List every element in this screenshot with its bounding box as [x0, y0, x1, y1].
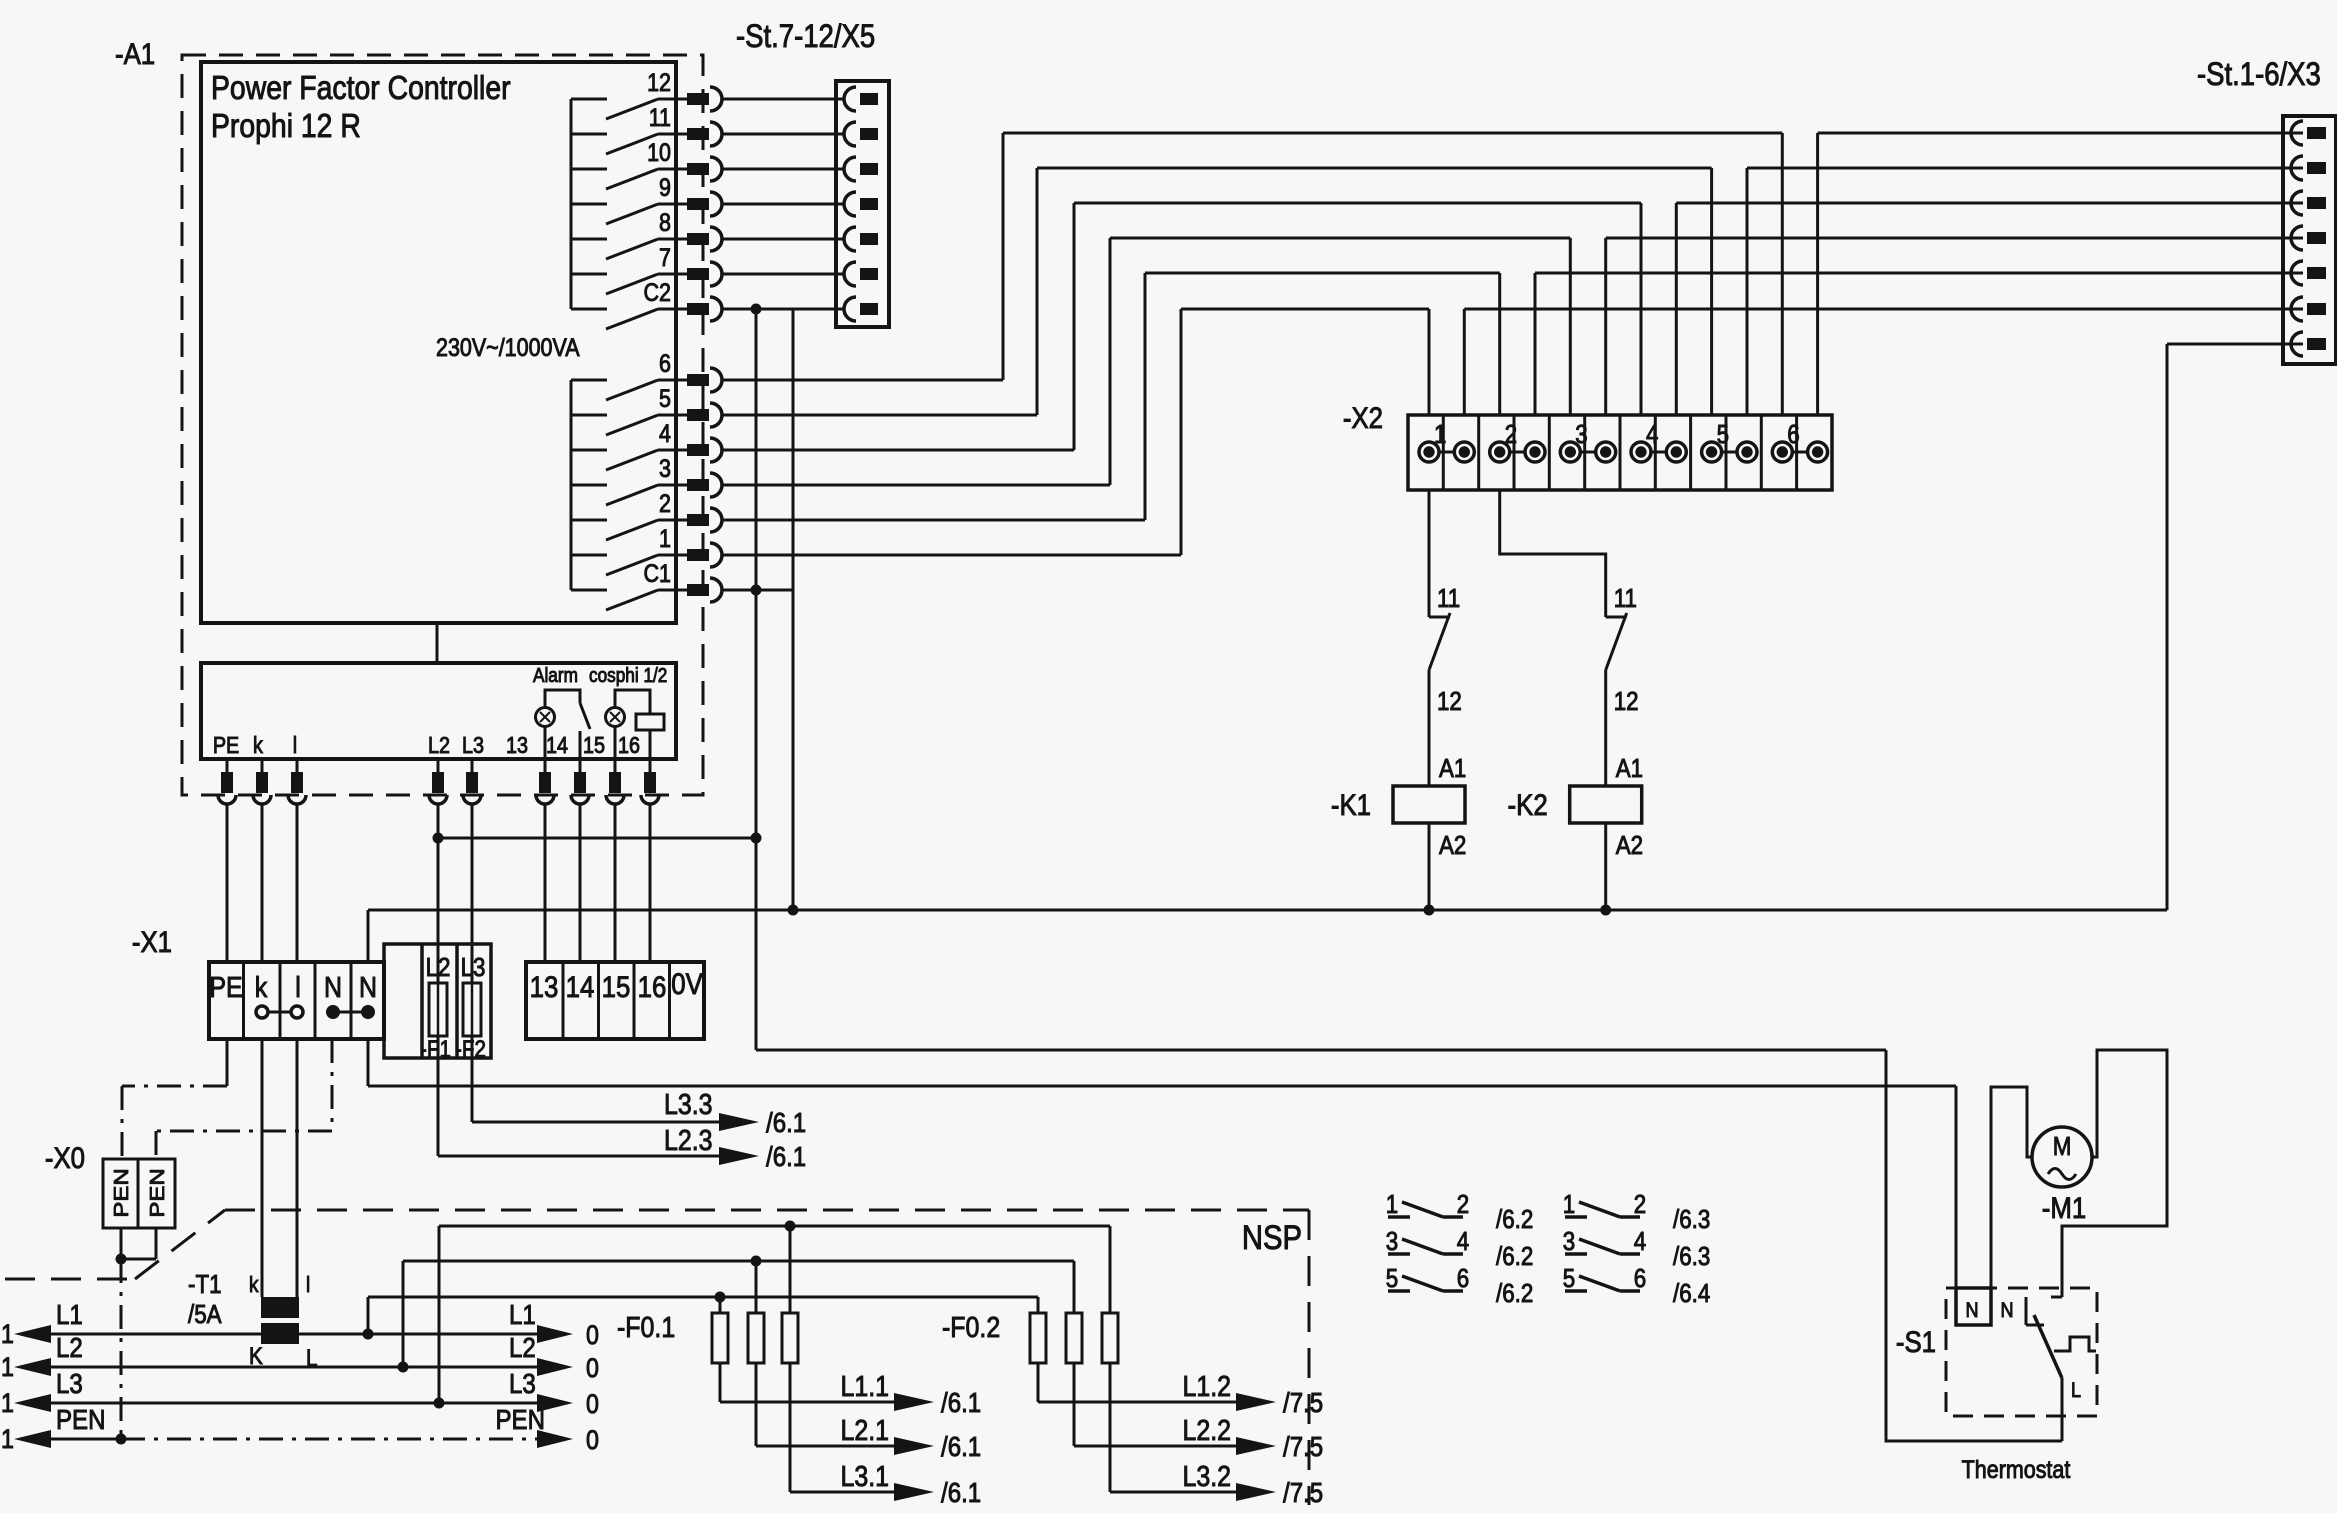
wire supply vertical x=756 [755, 309, 758, 1050]
svg-text:C2: C2 [644, 278, 671, 306]
terminal N box of S1 [1956, 1288, 1991, 1325]
terminal pair 6 of X2 [1772, 420, 1827, 462]
relay contact 11 of A1 with pin [571, 103, 722, 154]
svg-text:L: L [2071, 1379, 2081, 1403]
label -T1 /5A [188, 1270, 222, 1329]
svg-text:cosphi 1/2: cosphi 1/2 [589, 664, 667, 687]
socket 6 of X3 [2291, 297, 2326, 321]
wire down into X2 terminal x=1711.6 [1710, 168, 1713, 415]
pin 15 of A1 bottom [606, 759, 624, 804]
node K1 bus junction [1424, 905, 1435, 916]
pin L3 of A1 bottom [463, 759, 481, 804]
svg-text:PEN: PEN [146, 1168, 169, 1217]
svg-text:L3: L3 [56, 1367, 83, 1399]
switch blade S1 thermostat [2034, 1315, 2062, 1378]
svg-text:/7.5: /7.5 [1283, 1386, 1323, 1418]
wire N terminal to S1 bus [368, 1039, 1956, 1086]
labels X1 PE k l N N [209, 971, 377, 1003]
socket 4 of X5 (row 9) [844, 192, 878, 216]
wire X2 right terminal up x=1535.0 [1534, 273, 1537, 415]
socket 2 of X5 (row 11) [844, 122, 878, 146]
label L3.3 [664, 1088, 713, 1120]
contact 11-12 of K2 [1606, 613, 1627, 670]
label 13 14 15 16 terminals [506, 733, 640, 759]
boundary NSP dashed [5, 1210, 1309, 1505]
terminal strip X1 left body [209, 962, 384, 1039]
svg-text:/6.1: /6.1 [766, 1140, 806, 1172]
svg-text:3: 3 [1563, 1227, 1575, 1256]
label -M1 [2042, 1191, 2086, 1224]
svg-text:L3: L3 [509, 1367, 536, 1399]
svg-text:/5A: /5A [188, 1300, 222, 1329]
svg-text:/6.2: /6.2 [1496, 1242, 1533, 1271]
svg-text:N: N [1965, 1299, 1978, 1323]
svg-text:12: 12 [1437, 687, 1462, 716]
wire A1 pin 10 to X5 [722, 168, 844, 171]
wire X0 to PEN rail dash-dot [120, 1259, 123, 1439]
svg-text:L2.3: L2.3 [664, 1124, 713, 1156]
socket 3 of X5 (row 10) [844, 157, 878, 181]
arrow L2.3 /6.1 [719, 1140, 806, 1172]
label L3 fuse [461, 953, 486, 982]
svg-text:9: 9 [659, 173, 671, 201]
svg-text:2: 2 [1457, 1190, 1469, 1219]
pin l of A1 bottom [288, 759, 306, 804]
svg-text:K: K [249, 1343, 263, 1370]
svg-text:6: 6 [1457, 1264, 1469, 1293]
wire A1 pin PE to X1 [226, 804, 229, 962]
wire output L3.1 [790, 1491, 898, 1494]
coil K2 [1570, 786, 1642, 823]
svg-text:/6.2: /6.2 [1496, 1279, 1533, 1308]
wire relay output y=555 to riser [722, 554, 1181, 557]
fuse F2 [463, 944, 481, 1058]
wire M1 left to S1 N terminal [1991, 1087, 2032, 1288]
label Power Factor Controller [211, 69, 511, 145]
svg-text:Alarm: Alarm [533, 664, 578, 687]
fuse holder box F1 F2 [384, 944, 491, 1058]
svg-text:M: M [2053, 1132, 2072, 1161]
svg-text:14: 14 [566, 970, 595, 1003]
wire output L3.2 [1110, 1491, 1240, 1494]
svg-text:N: N [324, 971, 342, 1003]
wire down into X2 terminal x=1499.7 [1498, 273, 1501, 415]
wire A1 pin C1 to node [722, 589, 793, 592]
terminal pair 3 of X2 [1560, 420, 1615, 462]
svg-text:0V: 0V [671, 967, 703, 1000]
svg-text:5: 5 [1717, 420, 1729, 449]
transformer T1 secondary bar [261, 1297, 299, 1318]
svg-text:-T1: -T1 [188, 1270, 222, 1299]
wire thermostat return [1886, 1050, 2062, 1441]
svg-text:-F2: -F2 [455, 1036, 486, 1063]
socket 1 of X5 (row 12) [844, 87, 878, 111]
socket 4 of X3 [2291, 226, 2326, 250]
label -F2 [455, 1036, 486, 1063]
wire k to T1 [261, 1039, 264, 1297]
wire lamp H1 to pin 13 [544, 727, 547, 759]
wire output L1.1 [720, 1401, 898, 1404]
svg-text:4: 4 [1634, 1227, 1646, 1256]
relay common bus bracket upper [570, 99, 573, 309]
relay contact 4 of A1 with pin [571, 419, 722, 470]
svg-text:2: 2 [1505, 420, 1517, 449]
label Thermostat [1962, 1455, 2071, 1483]
enclosure A1 dashed border [182, 55, 703, 795]
svg-text:N: N [2000, 1299, 2013, 1323]
svg-text:L1: L1 [56, 1298, 83, 1330]
wire riser up x=1003 [1002, 133, 1005, 380]
fuse F1 [429, 944, 447, 1058]
relay contact 10 of A1 with pin [571, 138, 722, 189]
node L2 tap [433, 833, 444, 844]
wire A1 pin k to X1 [261, 804, 264, 962]
label PE k l terminals [213, 733, 297, 759]
terminal mark S1 L-in [2051, 1296, 2062, 1299]
svg-text:k: k [249, 1273, 259, 1298]
svg-text:/7.5: /7.5 [1283, 1476, 1323, 1508]
wire A1 pin 13 to X1 [544, 804, 547, 962]
label K1 contact 11 [1437, 584, 1460, 613]
fuse F0.1 L2.1 [748, 1261, 764, 1446]
wire A1 pin l to X1 [296, 804, 299, 962]
coil K1 [1393, 786, 1465, 823]
wire riser up x=1110 [1109, 238, 1112, 485]
svg-text:/6.1: /6.1 [941, 1430, 981, 1462]
svg-text:13: 13 [530, 970, 559, 1003]
svg-text:6: 6 [1634, 1264, 1646, 1293]
node C2 junction [751, 304, 762, 315]
label K1 contact 12 [1437, 687, 1462, 716]
arrow L1.1 /6.1 [894, 1386, 981, 1418]
wire level y=203 to X3 socket 3 [1676, 202, 2303, 205]
wire A1 pin 9 to X5 [722, 203, 844, 206]
label K2 coil A2 [1616, 831, 1643, 860]
svg-text:0: 0 [586, 1353, 599, 1383]
arrow L3.2 /7.5 [1236, 1476, 1323, 1508]
svg-text:230V~/1000VA: 230V~/1000VA [436, 333, 580, 361]
wire A1 pin 7 to X5 [722, 273, 844, 276]
wire level y=168 to X2 left terminal [1037, 167, 1712, 170]
relay common bus bracket lower [570, 380, 573, 590]
wire output L1.2 [1038, 1401, 1240, 1404]
terminal strip X2 body [1408, 415, 1832, 490]
connector X3 body [2283, 116, 2336, 364]
svg-text:-M1: -M1 [2042, 1191, 2086, 1224]
svg-text:PE: PE [213, 733, 239, 759]
svg-text:7: 7 [659, 243, 671, 271]
label -X2 [1343, 401, 1383, 434]
svg-text:Thermostat: Thermostat [1962, 1455, 2071, 1483]
svg-text:1: 1 [1, 1424, 14, 1454]
terminal pair 2 of X2 [1490, 420, 1545, 462]
label S1 N first [1965, 1299, 1978, 1323]
svg-text:16: 16 [618, 733, 640, 759]
wire X2 right terminal up x=1605.7 [1604, 238, 1607, 415]
wire lamp H2 top bracket [615, 690, 650, 714]
svg-text:PE: PE [209, 971, 242, 1003]
wire relay output y=450 to riser [722, 449, 1074, 452]
label L1.2 [1182, 1370, 1231, 1402]
label L3.1 [840, 1460, 889, 1492]
wire X2 right terminal up x=1747.0 [1746, 168, 1749, 415]
node C1 junction [751, 585, 762, 596]
svg-text:5: 5 [1563, 1264, 1575, 1293]
svg-text:4: 4 [659, 419, 671, 447]
relay contact 1 of A1 with pin [571, 524, 722, 575]
svg-text:15: 15 [602, 970, 631, 1003]
svg-text:l: l [295, 971, 301, 1003]
wire F2 output L3.3 [472, 1058, 719, 1122]
wire X3 socket7 drop x=2167 [2166, 344, 2169, 910]
wire coil bus to X1 terminal N [367, 910, 370, 962]
wire alarm switch to pin 14 [579, 731, 582, 759]
svg-text:A2: A2 [1616, 831, 1643, 860]
wire relay output y=415 to riser [722, 414, 1037, 417]
thermostat S1 dashed box [1946, 1288, 2097, 1416]
wire lamp H1 top bracket [545, 690, 580, 707]
node feed L1.1 [715, 1292, 726, 1303]
label L2.3 [664, 1124, 713, 1156]
wire l to T1 [296, 1039, 299, 1297]
svg-text:11: 11 [649, 103, 671, 131]
svg-text:-St.7-12/X5: -St.7-12/X5 [736, 19, 875, 54]
wire A1 pin C2 to X5 socket 7 [722, 308, 844, 311]
pin L2 of A1 bottom [429, 759, 447, 804]
svg-text:L3: L3 [462, 733, 484, 759]
label L3.2 [1182, 1460, 1231, 1492]
svg-text:-F0.2: -F0.2 [942, 1311, 1000, 1343]
wire C2 branch down x=793 [792, 309, 795, 910]
svg-text:-A1: -A1 [115, 37, 155, 70]
svg-text:5: 5 [1386, 1264, 1398, 1293]
relay contact 12 of A1 with pin [571, 68, 722, 119]
wire A1 main box to terminal section [436, 623, 439, 663]
node L2 rail tap [398, 1362, 409, 1373]
wire A1 pin 12 to X5 [722, 98, 844, 101]
terminal mark S1 N2 [2026, 1297, 2044, 1325]
link k-l measurement [256, 1006, 303, 1018]
connector X5 body [836, 81, 889, 327]
wire relay output y=520 to riser [722, 519, 1145, 522]
label L1.1 [840, 1370, 889, 1402]
svg-text:L3.1: L3.1 [840, 1460, 889, 1492]
svg-text:-K1: -K1 [1331, 788, 1371, 821]
label K2 coil A1 [1616, 754, 1643, 783]
rail L2 [1, 1331, 599, 1383]
contact 11-12 of K1 [1429, 613, 1450, 670]
socket 6 of X5 (row 7) [844, 262, 878, 286]
svg-text:5: 5 [659, 384, 671, 412]
arrow L3.1 /6.1 [894, 1476, 981, 1508]
svg-text:-St.1-6/X3: -St.1-6/X3 [2197, 57, 2321, 92]
relay contact C1 of A1 with pin [571, 559, 722, 610]
node K2 bus junction [1600, 905, 1611, 916]
wire K2 coil to bus [1604, 823, 1607, 910]
svg-text:A1: A1 [1439, 754, 1466, 783]
wire N bus into S1 [1955, 1086, 1958, 1325]
terminal pair 1 of X2 [1419, 420, 1474, 462]
rail L1 [1, 1298, 599, 1350]
node feed L2.1 [751, 1256, 762, 1267]
svg-text:/7.5: /7.5 [1283, 1430, 1323, 1462]
relay contact 3 of A1 with pin [571, 454, 722, 505]
pin k of A1 bottom [253, 759, 271, 804]
label S1 L [2071, 1379, 2081, 1403]
svg-text:L3.2: L3.2 [1182, 1460, 1231, 1492]
svg-text:A1: A1 [1616, 754, 1643, 783]
label -X1 [132, 925, 172, 958]
svg-text:4: 4 [1457, 1227, 1469, 1256]
wire A1 pin L2 to X1 [437, 804, 440, 944]
svg-text:10: 10 [647, 138, 671, 166]
label T1 K L [249, 1343, 317, 1372]
relay contact 5 of A1 with pin [571, 384, 722, 435]
node X0 PEN junction [116, 1254, 127, 1265]
relay contact 2 of A1 with pin [571, 489, 722, 540]
arrow L3.3 /6.1 [719, 1106, 806, 1138]
svg-text:C1: C1 [644, 559, 671, 587]
svg-text:A2: A2 [1439, 831, 1466, 860]
svg-text:1: 1 [1386, 1190, 1398, 1219]
switch alarm contact [580, 703, 590, 729]
wire X2 right terminal up x=1676.3 [1675, 203, 1678, 415]
terminal X0 PEN left [103, 1159, 138, 1228]
wire PE dash-dot to X0 [122, 1086, 227, 1159]
wire L2 tap to supply vertical [438, 837, 756, 840]
svg-text:1: 1 [1434, 420, 1446, 449]
wire X2-2 to K2 contact [1500, 490, 1606, 617]
contact ref 3-4 /6.2 [1386, 1227, 1534, 1271]
wire riser up x=1037 [1036, 168, 1039, 415]
socket 7 of X3 [2291, 332, 2326, 356]
contact ref 1-2 /6.3 [1563, 1190, 1711, 1234]
wire K1 contact to coil [1428, 670, 1431, 786]
label L2.1 [840, 1414, 889, 1446]
svg-text:L2.1: L2.1 [840, 1414, 889, 1446]
link N-N bridge [326, 1005, 375, 1019]
pin 13 of A1 bottom [536, 759, 554, 804]
label L2.2 [1182, 1414, 1231, 1446]
wire X0 PEN link [121, 1228, 156, 1259]
wire X0 left PEN down [120, 1228, 123, 1259]
relay contact 8 of A1 with pin [571, 208, 722, 259]
svg-text:/6.3: /6.3 [1673, 1242, 1710, 1271]
wire level y=273 to X3 socket 5 [1535, 272, 2303, 275]
svg-text:-F0.1: -F0.1 [617, 1311, 675, 1343]
wire L3 tap to F0 feeds [439, 1226, 1110, 1403]
svg-text:/6.4: /6.4 [1673, 1279, 1710, 1308]
svg-text:k: k [253, 733, 263, 759]
svg-text:L1: L1 [509, 1298, 536, 1330]
wire riser up x=1074 [1073, 203, 1076, 450]
terminal pair 4 of X2 [1631, 420, 1686, 462]
label -S1 [1896, 1325, 1936, 1358]
socket 5 of X3 [2291, 261, 2326, 285]
svg-text:0: 0 [586, 1389, 599, 1419]
fuse F0.1 L1.1 [712, 1297, 728, 1402]
wire M1 right loop to thermostat switch [2062, 1050, 2167, 1297]
contact ref 3-4 /6.3 [1563, 1227, 1711, 1271]
wire A1 pin 15 to X1 [614, 804, 617, 962]
wire level y=238 to X2 left terminal [1110, 237, 1570, 240]
label -K1 [1331, 788, 1371, 821]
svg-text:L1.1: L1.1 [840, 1370, 889, 1402]
node feed L3.1 [785, 1221, 796, 1232]
label connector -St.1-6/X3 [2197, 57, 2321, 92]
wire A1 pin 16 to X1 [649, 804, 652, 962]
label S1 N second [2000, 1299, 2013, 1323]
wire level y=133 to X2 left terminal [1003, 132, 1782, 135]
svg-text:1: 1 [1563, 1190, 1575, 1219]
label T1 k l [249, 1273, 310, 1298]
wire down into X2 terminal x=1570.3 [1569, 238, 1572, 415]
svg-text:0: 0 [586, 1320, 599, 1350]
label K2 contact 12 [1614, 687, 1639, 716]
node L3 rail tap [434, 1398, 445, 1409]
wire X2-1 to K1 contact [1428, 490, 1431, 617]
controller A1 label [115, 37, 155, 70]
fuse F0.2 L1.2 [1030, 1297, 1046, 1402]
wire down into X2 terminal x=1429.0 [1428, 309, 1431, 415]
fuse F0.2 L2.2 [1066, 1261, 1082, 1446]
svg-text:4: 4 [1646, 420, 1658, 449]
svg-text:PEN: PEN [110, 1168, 133, 1217]
wire down into X2 terminal x=1641.0 [1640, 203, 1643, 415]
arrow L2.2 /7.5 [1236, 1430, 1323, 1462]
wire level y=273 to X2 left terminal [1145, 272, 1500, 275]
wire F1 output L2.3 [438, 1058, 719, 1156]
arrow L1.2 /7.5 [1236, 1386, 1323, 1418]
label K2 contact 11 [1614, 584, 1637, 613]
svg-text:-S1: -S1 [1896, 1325, 1936, 1358]
wire lamp H2 to pin 15 [614, 727, 617, 759]
label -X0 [45, 1141, 85, 1174]
pin 16 of A1 bottom [641, 759, 659, 804]
svg-text:12: 12 [1614, 687, 1639, 716]
label connector -St.7-12/X5 [736, 19, 875, 54]
svg-text:l: l [306, 1273, 310, 1298]
relay contact 7 of A1 with pin [571, 243, 722, 294]
svg-text:1: 1 [1, 1319, 14, 1349]
svg-text:0: 0 [586, 1425, 599, 1455]
svg-text:2: 2 [659, 489, 671, 517]
svg-text:Power Factor Controller: Power Factor Controller [211, 69, 511, 107]
wire relay box to pin 16 [649, 730, 652, 759]
arrow L2.1 /6.1 [894, 1430, 981, 1462]
labels X1 13 14 15 16 0V [530, 967, 703, 1003]
contact ref 1-2 /6.2 [1386, 1190, 1534, 1234]
fuse F0.2 L3.2 [1102, 1226, 1118, 1492]
relay contact 9 of A1 with pin [571, 173, 722, 224]
wire riser up x=1181 [1180, 309, 1183, 555]
terminal strip X1 right body [526, 962, 704, 1039]
node L1 tap [363, 1329, 374, 1340]
svg-text:15: 15 [583, 733, 605, 759]
svg-text:1: 1 [1, 1388, 14, 1418]
svg-text:11: 11 [1437, 584, 1460, 613]
svg-text:11: 11 [1614, 584, 1637, 613]
svg-text:8: 8 [659, 208, 671, 236]
wire X3 socket7 lead [2167, 343, 2303, 346]
contact ref 5-6 /6.4 [1563, 1264, 1711, 1308]
wire riser up x=1145 [1144, 273, 1147, 520]
wire L2 tap to F0 feeds [403, 1261, 1074, 1367]
motor M1 [2032, 1127, 2092, 1187]
svg-text:N: N [359, 971, 377, 1003]
svg-text:14: 14 [546, 733, 568, 759]
label -F0.1 [617, 1311, 675, 1343]
